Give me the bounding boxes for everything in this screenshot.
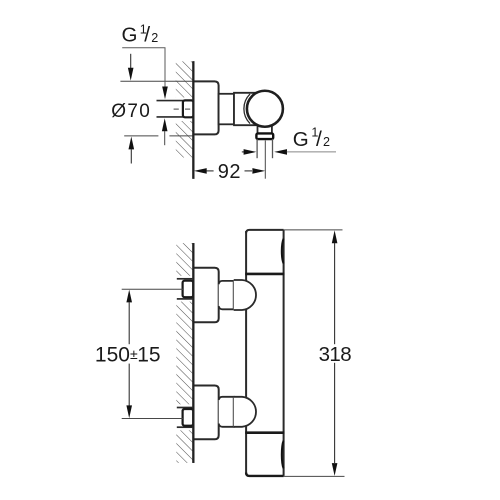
pipe centre line dashes (top view) bbox=[174, 108, 179, 110]
wall face line (top view) bbox=[192, 61, 194, 179]
dia70 dimension arrow down (top) bbox=[130, 54, 132, 68]
mixer body top edge bbox=[246, 230, 284, 233]
svg-text:/: / bbox=[316, 128, 322, 151]
wall hatching (lower view) bbox=[169, 243, 194, 463]
outlet pipe stub bbox=[256, 139, 258, 158]
escutcheon flange (top view) bbox=[193, 81, 218, 134]
bottom cap top line bbox=[245, 431, 284, 434]
upper union neck bbox=[219, 281, 234, 309]
svg-text:318: 318 bbox=[319, 343, 352, 366]
svg-text:92: 92 bbox=[218, 161, 241, 183]
top cap bottom line bbox=[245, 273, 284, 276]
lower supply stub lines bbox=[177, 407, 193, 409]
lower check valve dome bbox=[234, 397, 256, 427]
318 dimension line with arrows bbox=[332, 230, 338, 243]
top cap shading arc bbox=[282, 239, 284, 264]
handle rear skirt arc bbox=[244, 94, 250, 124]
G 1/2 right leader arrows at outlet bbox=[242, 151, 245, 153]
mixer body bar left edge segments bbox=[245, 231, 247, 281]
wall union nut (top view) bbox=[183, 100, 194, 117]
svg-text:G: G bbox=[122, 24, 138, 47]
supply pipe behind wall (top view) bbox=[157, 100, 185, 102]
outlet collar below handle bbox=[258, 122, 272, 133]
cartridge housing section (top view) bbox=[234, 93, 256, 125]
G 1/2 top leader line bbox=[122, 48, 165, 87]
150 dimension line with arrows bbox=[126, 290, 132, 303]
318 dimension extension line bottom bbox=[284, 475, 345, 477]
150 dimension extension line upper bbox=[122, 288, 183, 290]
dimension 92 line left arrow bbox=[194, 168, 207, 174]
valve body neck section (top view) bbox=[219, 94, 234, 125]
outlet nut bbox=[256, 133, 273, 139]
318 dimension extension line top bbox=[284, 229, 343, 231]
G 1/2 top arrow up to pipe (below) bbox=[162, 118, 168, 131]
svg-text:150±15: 150±15 bbox=[95, 343, 161, 366]
upper escutcheon bbox=[193, 268, 218, 323]
handle knob circle (top view) bbox=[247, 91, 283, 127]
mixer body bar right edge bbox=[283, 230, 285, 476]
dimension 92 line right arrow bbox=[245, 170, 253, 172]
wall face line (lower view) bbox=[192, 243, 194, 463]
svg-text:2: 2 bbox=[323, 135, 330, 149]
wall face line re-stroke (top view) bbox=[192, 61, 194, 179]
G 1/2 top arrow down to pipe bbox=[162, 87, 168, 100]
dimension extension line top of flange (dia 70) bbox=[120, 80, 193, 82]
svg-text:G: G bbox=[293, 128, 309, 151]
svg-text:2: 2 bbox=[151, 31, 158, 45]
svg-text:Ø70: Ø70 bbox=[111, 101, 151, 122]
wall face line re-stroke (lower view) bbox=[192, 243, 194, 463]
upper wall union nut bbox=[183, 281, 194, 298]
lower wall union nut bbox=[183, 409, 194, 426]
dia70 dimension arrow up (bottom) bbox=[129, 137, 135, 150]
wall hatching (top view) bbox=[169, 61, 194, 157]
bottom cap shading arc bbox=[282, 441, 284, 469]
lower union neck bbox=[219, 397, 234, 427]
mixer body bottom edge bbox=[246, 473, 284, 476]
svg-text:/: / bbox=[144, 24, 150, 47]
upper supply stub lines bbox=[177, 278, 193, 280]
lower escutcheon bbox=[193, 386, 218, 440]
dimension extension line bottom of flange (dia 70) bbox=[124, 135, 158, 137]
outlet centre line bbox=[264, 141, 266, 179]
upper check valve dome bbox=[234, 280, 256, 310]
150 dimension extension line lower bbox=[122, 418, 183, 420]
